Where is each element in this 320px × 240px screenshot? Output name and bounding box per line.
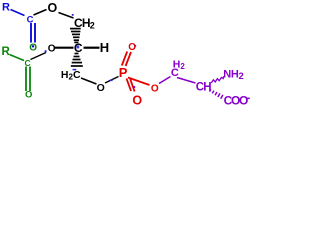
wire C1-O ester1 — [34, 10, 47, 16]
double bond P=O top — [122, 52, 127, 66]
wire O-CH2 serine — [159, 77, 171, 84]
wire H2C-O — [81, 78, 97, 84]
svg-text:O: O — [151, 84, 159, 95]
artifact blue pixel beside phosphate top oxygen — [135, 45, 136, 47]
wire P-O bridge — [128, 78, 150, 86]
wire C-H horizontal — [84, 47, 100, 49]
squiggle bond CH-NH2 — [211, 76, 223, 83]
svg-text:O: O — [128, 42, 136, 53]
hashed wedge C-H2C — [71, 54, 83, 67]
svg-text:R: R — [2, 46, 11, 58]
wire C2-O ester2 — [31, 53, 47, 60]
artifact blue mark inside stereocenter C — [77, 45, 80, 48]
svg-text:O: O — [48, 1, 58, 15]
svg-text:O: O — [132, 94, 142, 108]
svg-text:O: O — [97, 82, 105, 94]
hashed wedge CH2-C — [70, 29, 81, 43]
artifact blue segment on O-P wire — [110, 79, 113, 81]
wire R1-C1 — [11, 10, 25, 16]
svg-text:O: O — [25, 89, 32, 100]
svg-text:CH: CH — [196, 82, 212, 94]
artifact blue mark at ester2 oxygen bond end — [45, 50, 47, 52]
wire O-CH2 — [59, 13, 74, 19]
svg-text:O: O — [48, 44, 56, 55]
artifact blue dash below lower hashed wedge — [73, 69, 77, 71]
wire O-P — [105, 77, 119, 84]
svg-text:COO: COO — [224, 93, 248, 107]
wire R2-C2 — [10, 55, 25, 61]
artifact blue mark on O-CH2 wire — [72, 14, 74, 16]
svg-text:R: R — [2, 2, 10, 14]
svg-text:NH2: NH2 — [223, 68, 243, 82]
svg-text:O: O — [29, 42, 37, 53]
svg-text:P: P — [119, 65, 128, 80]
artifact violet pixel on lower P=O bond — [134, 86, 136, 88]
superscript minus of COO- — [246, 98, 250, 100]
double bond C2=O2 — [25, 67, 27, 92]
double bond C1=O1 — [30, 23, 32, 43]
double bond P=O bottom — [127, 79, 132, 92]
wire O-C horizontal — [55, 47, 74, 49]
wire CH2-CH serine — [177, 78, 196, 84]
hashed wedge CH-COO — [210, 89, 223, 99]
svg-text:H: H — [100, 40, 109, 55]
